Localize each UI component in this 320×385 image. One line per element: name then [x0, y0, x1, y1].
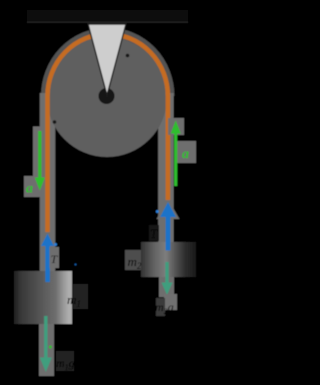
- svg-text:a: a: [182, 147, 189, 162]
- svg-text:T: T: [150, 226, 158, 241]
- svg-text:a: a: [26, 182, 33, 197]
